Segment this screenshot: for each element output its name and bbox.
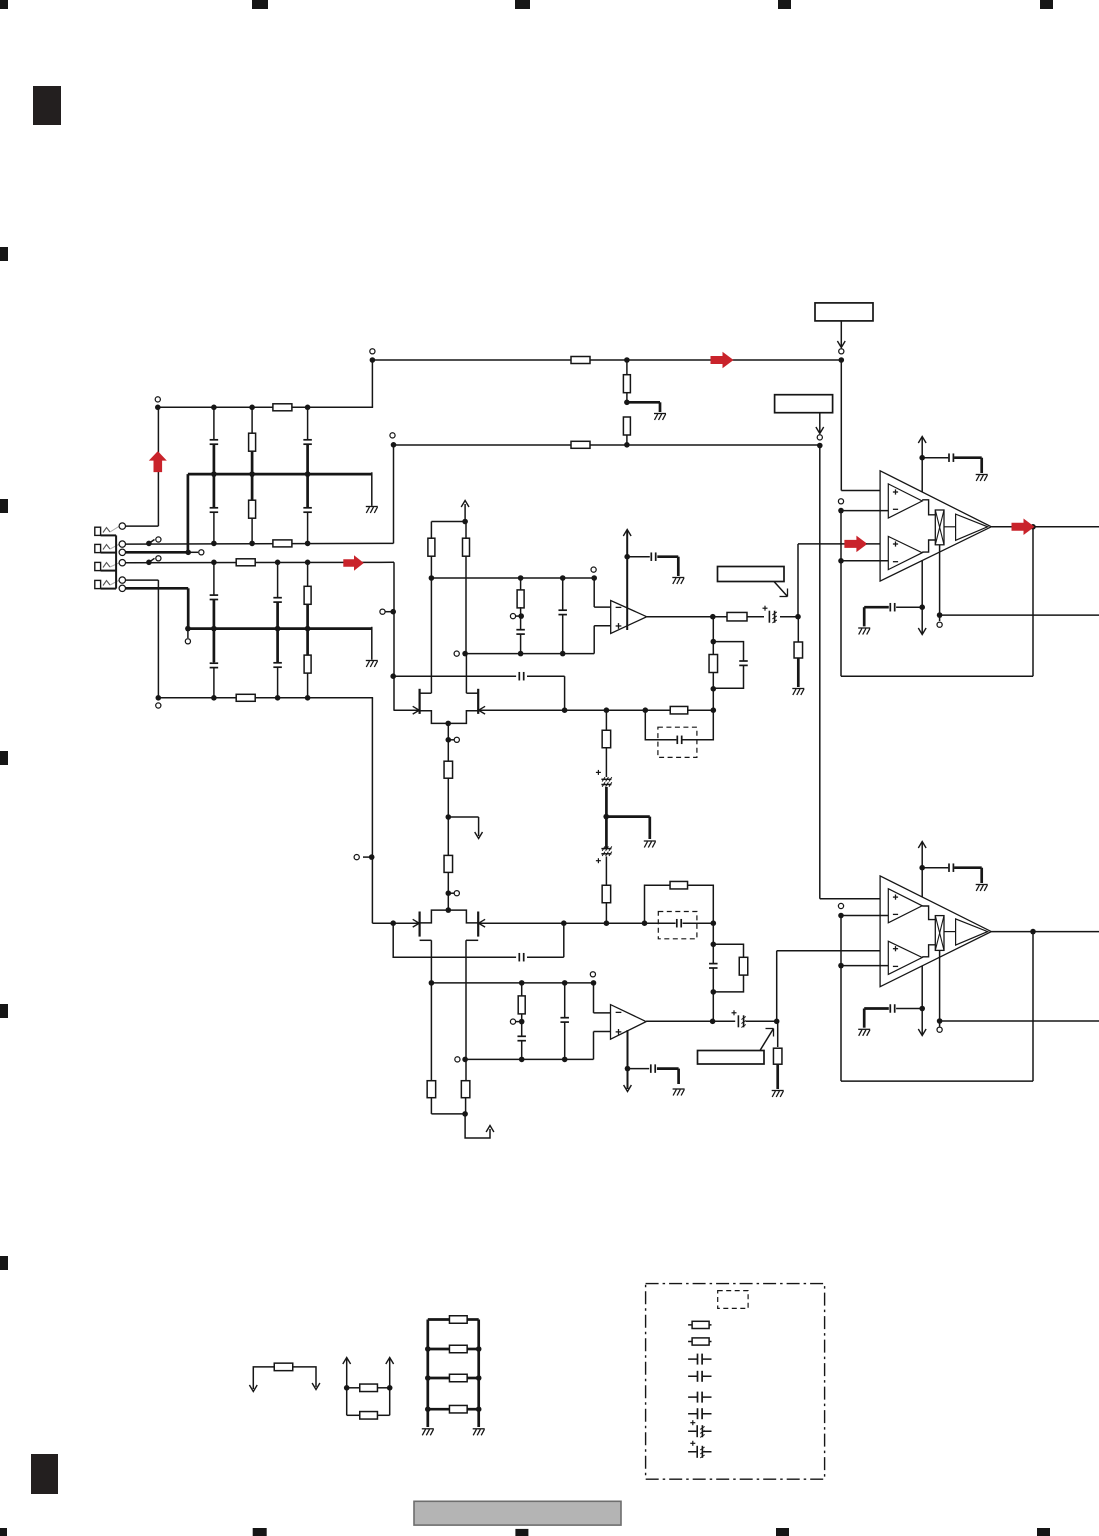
- jack J1 body: [95, 527, 101, 535]
- wire bias cap to r: [605, 856, 607, 885]
- IC2 input stage triangle A: [888, 889, 922, 923]
- jack J4 body: [95, 580, 101, 588]
- ground ladder left: [422, 1428, 434, 1430]
- resistor pair upper: [347, 1387, 360, 1389]
- label pointer upper: [774, 582, 788, 597]
- dashed box upper (optional part): [658, 727, 697, 757]
- capacitor row1 c4 lower: [307, 474, 309, 543]
- IC1 A plus: [893, 491, 898, 493]
- node drain load supply: [462, 519, 468, 525]
- node divider tap upper: [518, 613, 524, 619]
- node fb top upper: [711, 639, 717, 645]
- capacitor IC1 vplus decouple: [922, 457, 948, 459]
- wire Q1 source down: [447, 723, 449, 761]
- dashed box lower (optional part): [658, 912, 697, 939]
- IC1 supply arrow up: [918, 437, 926, 444]
- capacitor row2 c1: [213, 562, 215, 628]
- registration mark bottom 4: [776, 1528, 789, 1536]
- ladder rail right: [477, 1320, 480, 1428]
- capacitor row1 c3 lower: [213, 474, 215, 543]
- node row2 bottom left: [156, 695, 162, 701]
- IC2 output node: [1030, 929, 1036, 935]
- terminal divider upper: [510, 614, 515, 619]
- resistor row1 bottom: [273, 540, 292, 547]
- capacitor IC2 vminus decouple: [896, 1008, 922, 1010]
- node divider tap lower: [519, 1019, 525, 1025]
- node supply rail1 left: [370, 357, 376, 363]
- jack J2 contact: [103, 545, 110, 550]
- resistor row2 r1 vertical: [307, 562, 309, 628]
- IC1 A minus: [893, 508, 898, 510]
- resistor supply rail2: [571, 441, 590, 448]
- node coupling lower: [774, 1019, 780, 1025]
- label box flat lower: [698, 1051, 765, 1065]
- capacitor rail lower stage: [564, 983, 566, 1018]
- IC1 minus2 node: [838, 558, 844, 564]
- node rail2L left: [462, 1057, 468, 1063]
- ground IC1 vplus: [976, 474, 988, 476]
- U1 supply arrow: [623, 530, 631, 537]
- node IC1 vplus: [919, 455, 925, 461]
- rail1 lower stage: [431, 982, 593, 984]
- wire jack4 tip: [126, 579, 159, 581]
- node upper cap tap: [390, 673, 396, 679]
- U1 plus sign: [616, 625, 622, 627]
- IC2 mute wire right: [940, 1020, 1099, 1022]
- label pointer lower: [760, 1029, 774, 1051]
- node IC1 vminus: [919, 604, 925, 610]
- IC2 supply arrow up: [918, 842, 926, 849]
- resistor pair lower: [347, 1414, 360, 1416]
- capacitor U2 output coupling: [738, 1015, 745, 1027]
- node divider mid: [624, 400, 630, 406]
- jack J4 tip terminal: [119, 577, 125, 583]
- arrow down left: [249, 1385, 257, 1392]
- resistor coupling shunt lower: [777, 1021, 779, 1047]
- legend resistor 2: [688, 1341, 711, 1343]
- node IC1 mute: [937, 612, 943, 618]
- IC2 fb riser: [840, 916, 842, 1082]
- resistor upper feedback in line: [670, 706, 688, 714]
- capacitor upper gate tap: [519, 672, 523, 681]
- node row2 bottom a: [211, 695, 217, 701]
- U2 minus sign: [616, 1011, 622, 1013]
- wire U2 fb up: [712, 923, 714, 1021]
- wire supply rail2: [394, 444, 820, 446]
- switch stub row1: [146, 541, 152, 547]
- registration mark bottom 2: [253, 1528, 267, 1536]
- resistor U1 output series: [727, 612, 747, 621]
- stub divider terminal upper: [514, 615, 521, 617]
- node supply rail2 right: [817, 443, 823, 449]
- terminal IC2 mute: [937, 1027, 942, 1032]
- wire upper gate RC tap right: [527, 675, 565, 677]
- registration mark left 3: [0, 751, 8, 765]
- JFET Q2 right gate wire: [479, 922, 676, 924]
- IC1 B minus: [893, 561, 898, 563]
- arrow up pair right: [386, 1358, 394, 1365]
- JFET Q1 right source: [448, 711, 478, 724]
- IC2 fb right riser: [1032, 932, 1034, 1082]
- jack4 ring thick wire: [126, 587, 189, 590]
- JFET Q2 right source: [448, 910, 478, 923]
- node source tap upper: [446, 737, 452, 743]
- gate arrow lower left JFET: [413, 919, 420, 927]
- legend resistor 1: [688, 1324, 711, 1326]
- arrow from label box CN top: [840, 321, 842, 347]
- red arrow up (input signal): [149, 451, 167, 472]
- wire rail2 to op-amp plus: [593, 626, 595, 654]
- stub terminal upper gate riser: [386, 611, 394, 613]
- jack J3 body: [95, 562, 101, 570]
- U1 supply wire: [626, 531, 628, 630]
- IC2 B plus: [893, 948, 898, 950]
- ground bias: [644, 840, 656, 842]
- capacitor row2 c2: [277, 562, 279, 628]
- terminal rail2L left: [455, 1057, 460, 1062]
- ground bus1: [366, 506, 378, 508]
- capacitor row1 c2 upper: [307, 407, 309, 474]
- gate arrow lower right JFET: [479, 919, 486, 927]
- IC2 box to out tri: [944, 931, 956, 933]
- terminal rail1 right: [591, 567, 596, 572]
- page index black square top-left: [33, 86, 61, 125]
- node row1 rail a: [211, 405, 217, 411]
- capacitor row1 c1 upper: [213, 407, 215, 474]
- IC2 minus1 terminal: [838, 903, 843, 908]
- wire bias chain bottom: [605, 902, 607, 923]
- stub riser terminal: [363, 856, 372, 858]
- terminal supply rail2 right: [817, 435, 822, 440]
- resistor supply rail1: [571, 357, 590, 364]
- terminal upper gate riser: [380, 609, 385, 614]
- registration mark bottom 5: [1037, 1528, 1050, 1536]
- wire rail1L to op-amp minus: [593, 983, 595, 1013]
- node row2 bottom b: [275, 695, 281, 701]
- JFET Q2 right drain: [466, 939, 478, 941]
- wire arrow circuit right: [293, 1367, 316, 1387]
- node fbL top: [711, 942, 717, 948]
- resistor row1 top: [273, 404, 292, 411]
- wire supply rail2 down to lower amp: [819, 446, 821, 899]
- capacitor IC1 vminus decouple: [896, 606, 922, 608]
- capacitor rail upper stage: [562, 578, 564, 610]
- node row2 top a: [211, 560, 217, 566]
- resistor divider upper: [626, 360, 628, 374]
- IC1 minus2 wire: [841, 560, 889, 562]
- IC2 minus1 node: [838, 913, 844, 919]
- node bus1 a: [211, 471, 217, 477]
- wire lower gate RC tap right: [527, 956, 564, 958]
- ground bus row2: [188, 627, 372, 630]
- capacitor U1 output coupling: [769, 611, 776, 623]
- capacitor bias lower electrolytic: [600, 848, 612, 854]
- switch terminal row1: [156, 537, 161, 542]
- node riser tap: [369, 854, 375, 860]
- resistor bias upper: [602, 730, 611, 748]
- resistor lower feedback loop: [645, 885, 670, 923]
- U2 supply arrow down: [624, 1085, 632, 1092]
- node row1 bottom c: [305, 541, 311, 547]
- U1 minus sign: [616, 606, 622, 608]
- resistor divider lower: [623, 417, 630, 435]
- wire supply rail1: [372, 359, 841, 361]
- IC2 box bottom wire: [939, 950, 941, 1021]
- arrow down right: [312, 1383, 320, 1390]
- wire riser to top rail: [157, 407, 159, 526]
- wire bus1 to ground: [371, 472, 373, 506]
- label box flat upper: [718, 567, 785, 582]
- stub divider terminal lower: [515, 1021, 522, 1023]
- IC2 supply arrow down: [918, 1029, 926, 1036]
- node lower gate cap tap left: [390, 920, 396, 926]
- wire pair left: [346, 1359, 348, 1415]
- ground divider: [654, 413, 666, 415]
- capacitor bias upper electrolytic: [600, 779, 612, 785]
- wire row2 top rail: [126, 561, 395, 563]
- node pair left: [344, 1385, 350, 1391]
- thick riser jack4 ring to bus2: [187, 588, 190, 628]
- jack J2 ring terminal: [119, 549, 125, 555]
- resistor feedback lower loop: [713, 944, 743, 957]
- IC2 minus2 node: [838, 963, 844, 969]
- capacitor feedback lower: [709, 964, 718, 968]
- node fbL bottom: [711, 989, 717, 995]
- IC2 A minus: [893, 913, 898, 915]
- resistor source upper: [444, 761, 453, 778]
- terminal row2 bottom left: [156, 703, 161, 708]
- node supply rail1 right: [839, 357, 845, 363]
- wire U1 out to cap: [747, 616, 764, 618]
- jack2 ring thick wire: [126, 551, 189, 554]
- op-amp U2 lower channel: [611, 1005, 647, 1040]
- IC1 fb right riser: [1032, 527, 1034, 677]
- ground IC2 vplus: [976, 884, 988, 886]
- wire rail1 to op-amp minus: [593, 578, 595, 607]
- terminal row1 rail left: [155, 397, 160, 402]
- terminal source upper: [454, 737, 459, 742]
- wire coupling up: [797, 544, 799, 617]
- IC1 minus1 wire: [841, 510, 889, 512]
- node rail1 c: [560, 575, 566, 581]
- node rail1L b: [519, 980, 525, 986]
- wire row1 bottom to buffer input: [393, 445, 395, 544]
- wire divider to ground: [627, 401, 660, 404]
- registration mark left 4: [0, 1004, 8, 1018]
- IC1 supply wire vertical: [921, 438, 923, 492]
- resistor coupling shunt: [797, 617, 799, 642]
- page index black square bottom-left: [31, 1454, 58, 1494]
- jack body ground link: [115, 535, 117, 588]
- JFET pair Q2 lower - left gate bar: [419, 912, 421, 937]
- stub jack2 ring terminal: [188, 551, 198, 553]
- IC1 minus1 node: [838, 508, 844, 514]
- supply arrow lower stage: [486, 1126, 494, 1133]
- gate arrow upper right JFET: [479, 706, 486, 714]
- ladder node 3L: [425, 1375, 431, 1381]
- label box CN top: [815, 303, 873, 321]
- node row1 rail c: [305, 405, 311, 411]
- node row2 top b: [275, 560, 281, 566]
- legend capacitor 1: [688, 1358, 711, 1360]
- node bus2 b: [275, 626, 281, 632]
- IC1 mute wire right: [940, 614, 1099, 616]
- ladder node 2L: [425, 1346, 431, 1352]
- wire bias thick mid: [605, 787, 608, 848]
- wire bias chain top: [605, 710, 607, 730]
- node U1 output: [710, 614, 716, 620]
- IC1 box to out tri: [944, 526, 956, 528]
- registration mark left 1: [0, 247, 8, 261]
- terminal jack2 ring: [199, 550, 204, 555]
- wire drain load to supply arrow: [465, 1114, 490, 1138]
- node lower gate fb right: [711, 920, 717, 926]
- node source mid: [446, 814, 452, 820]
- ground IC2 vminus: [858, 1028, 870, 1030]
- terminal supply rail1 right: [839, 349, 844, 354]
- wire bus2 to ground: [371, 627, 373, 660]
- jack J4 contact: [103, 581, 110, 586]
- capacitor U1 supply decouple: [627, 556, 650, 558]
- registration mark top 4: [778, 0, 791, 9]
- node bus2 c: [305, 626, 311, 632]
- node pair right: [387, 1385, 393, 1391]
- wire source mid: [447, 778, 449, 855]
- resistor divider upper stage: [520, 578, 522, 591]
- red arrow right row2: [343, 555, 364, 571]
- legend capacitor 2: [688, 1375, 711, 1377]
- node IC2 vplus: [919, 865, 925, 871]
- node bus1 b: [249, 471, 255, 477]
- ground bus2: [366, 660, 378, 662]
- registration mark top 3: [515, 0, 530, 9]
- node lower gate bias tap: [604, 920, 610, 926]
- jack J2 tip terminal: [119, 541, 125, 547]
- registration mark top 1: [0, 0, 8, 9]
- resistor Q2 right drain load: [461, 1081, 470, 1098]
- terminal riser: [354, 855, 359, 860]
- wire row2 top riser to upper gate: [393, 562, 395, 710]
- gray title bar: [414, 1501, 621, 1525]
- wire lower gate RC tap: [393, 923, 516, 957]
- JFET Q1 left source: [420, 711, 449, 724]
- node rail2L b: [519, 1057, 525, 1063]
- red arrow right output: [1012, 519, 1035, 536]
- legend capacitor 4: [688, 1413, 711, 1415]
- resistor Q1 left drain load: [430, 555, 432, 578]
- node corner row1: [391, 442, 397, 448]
- wire row2 bottom rail: [158, 697, 373, 699]
- terminal rail2 left: [454, 651, 459, 656]
- node rail1L left: [429, 980, 435, 986]
- JFET Q1 left drain: [420, 692, 432, 694]
- JFET pair Q2 lower - right gate bar: [477, 912, 479, 937]
- rail2 lower stage: [465, 1058, 593, 1060]
- ground IC1 vminus: [858, 627, 870, 629]
- wire bias r to cap: [605, 748, 607, 777]
- IC2 input stage triangle B: [888, 941, 922, 974]
- rail2 upper stage: [465, 653, 594, 655]
- node bus1 c: [305, 471, 311, 477]
- node row2 bottom c: [305, 695, 311, 701]
- wire jack4 tip riser down: [157, 580, 159, 698]
- node upper gate fb right: [711, 707, 717, 713]
- wire row1 rail up to supply rail: [371, 360, 373, 407]
- capacitor U2 supply decouple: [628, 1068, 650, 1070]
- terminal above corner: [390, 433, 395, 438]
- wire supply rail1 down to upper amp: [840, 360, 842, 491]
- node U2 output: [710, 1019, 716, 1025]
- wire lower gate fb right: [683, 922, 714, 924]
- stub IC2 mute terminal: [939, 1021, 941, 1027]
- IC1 input stage triangle B: [888, 536, 922, 569]
- resistor row1 r2 vertical: [251, 474, 253, 543]
- node source tap lower: [446, 890, 452, 896]
- wire row1 top rail: [158, 406, 373, 408]
- node row1 bottom a: [211, 541, 217, 547]
- jack J1 tip terminal: [119, 523, 125, 529]
- registration mark bottom 1: [0, 1528, 7, 1536]
- registration mark left 5: [0, 1256, 8, 1270]
- dashed capacitor loop upper: [645, 710, 676, 740]
- node rail2 left: [462, 651, 468, 657]
- arrow from label box CN mid: [819, 413, 821, 434]
- IC2 output wire: [991, 931, 1099, 933]
- capacitor row2 c3 lower: [213, 629, 215, 698]
- resistor Q1 right drain load: [465, 555, 467, 653]
- node rail1 left: [429, 575, 435, 581]
- U2 supply wire: [627, 1030, 629, 1089]
- wire U1 output: [647, 616, 727, 618]
- resistor row2 r2 vertical: [307, 629, 309, 698]
- node Q2 source: [446, 907, 452, 913]
- JFET Q1 right gate wire: [479, 709, 714, 711]
- registration mark top 5: [1040, 0, 1053, 9]
- ground ladder right: [473, 1428, 485, 1430]
- jack J3 contact: [103, 563, 110, 568]
- node U2 supply: [625, 1066, 631, 1072]
- wire into power amp plus2: [866, 543, 889, 545]
- wire rail2L to op-amp plus: [593, 1032, 595, 1060]
- resistor bias lower: [602, 885, 611, 903]
- stub source terminal lower: [448, 892, 454, 894]
- node rail1L c: [562, 980, 568, 986]
- ladder resistor 1: [428, 1318, 450, 1321]
- jack J4 ring terminal: [119, 585, 125, 591]
- rail1 upper stage: [431, 577, 594, 579]
- wire U2 output: [646, 1020, 735, 1022]
- capacitor IC2 vplus decouple: [922, 867, 948, 869]
- JFET Q2 left drain: [420, 939, 432, 941]
- IC2 minus1 wire: [841, 915, 889, 917]
- node row2 top c: [305, 560, 311, 566]
- node fb bottom upper: [711, 686, 717, 692]
- op-amp U1 upper channel: [611, 601, 647, 634]
- wire coupling lower up: [776, 951, 778, 1022]
- node upper gate fb left: [643, 707, 649, 713]
- IC1 A to box: [922, 500, 935, 515]
- resistor Q2 left drain load: [427, 1081, 436, 1098]
- wire upper gate RC tap: [393, 675, 516, 677]
- gate arrow upper left JFET: [413, 706, 420, 714]
- power amp IC2 big triangle: [880, 876, 991, 987]
- ladder node 4L: [425, 1406, 431, 1412]
- IC2 fb bottom wire: [841, 1080, 1033, 1082]
- wire source to lower pair: [447, 872, 449, 910]
- wire jack1 tip to riser: [126, 525, 159, 527]
- node upper gate cap tap: [562, 707, 568, 713]
- node rail1 b: [518, 575, 524, 581]
